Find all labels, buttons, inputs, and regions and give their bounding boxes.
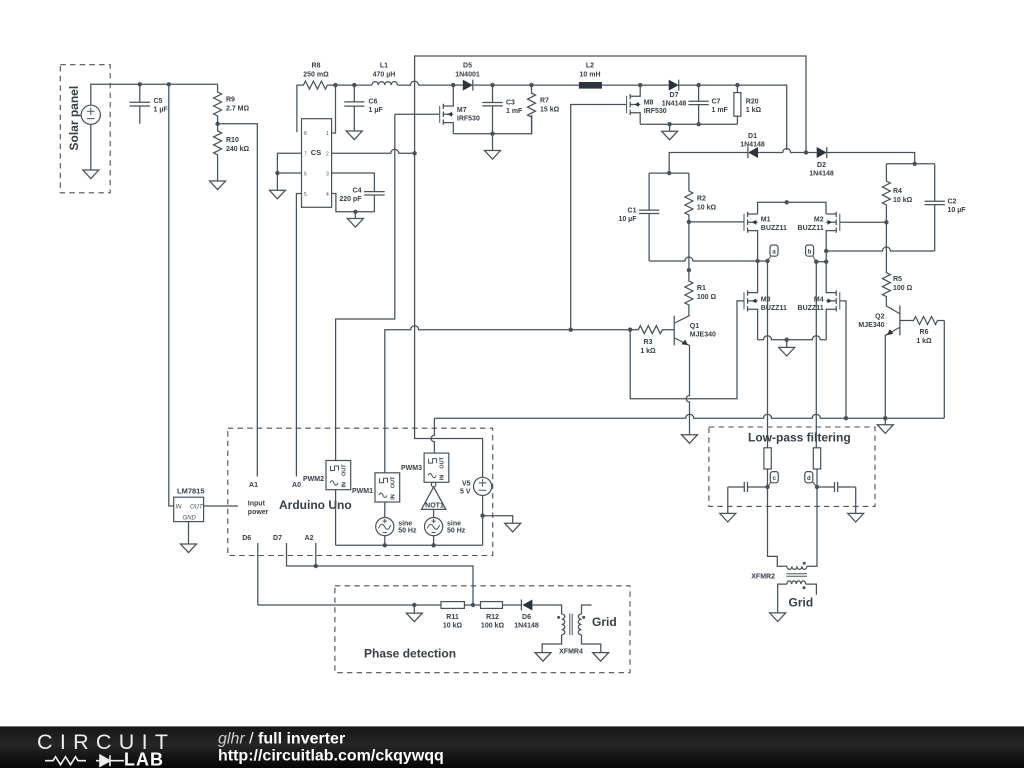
- svg-text:8: 8: [304, 131, 307, 137]
- svg-text:b: b: [808, 250, 812, 256]
- node dot d junction: [815, 485, 819, 489]
- svg-text:BUZZ11: BUZZ11: [798, 305, 824, 312]
- node dot M2 source C2 tap: [824, 249, 828, 253]
- svg-text:100 Ω: 100 Ω: [697, 294, 717, 301]
- Low-pass filtering dashed enclosure: [709, 427, 875, 506]
- svg-text:10 kΩ: 10 kΩ: [443, 623, 463, 630]
- wire D1 anode to D2 anode with hop: [758, 149, 817, 153]
- wire c to XFMR2 primary: [768, 487, 787, 566]
- svg-text:10 kΩ: 10 kΩ: [697, 205, 717, 212]
- rail R4/C2 top: [886, 163, 934, 165]
- filter capacitor left: [728, 482, 768, 492]
- svg-text:BUZZ11: BUZZ11: [761, 225, 787, 232]
- capacitor C5: [130, 84, 169, 124]
- node dot R4/R5/M2gate: [884, 220, 888, 224]
- PWM2 block: [303, 461, 351, 490]
- node dot bridge top: [785, 200, 789, 204]
- wire R2 to R1 with hop over C1 rail: [688, 222, 690, 270]
- svg-text:R4: R4: [893, 188, 902, 195]
- svg-text:C2: C2: [948, 199, 957, 206]
- svg-text:D6: D6: [522, 614, 531, 621]
- node dot R9/R10 junction: [215, 122, 219, 126]
- sine source (PWM1 input): [376, 518, 417, 536]
- svg-text:R20: R20: [746, 99, 759, 106]
- inverter NOT1: [422, 482, 446, 509]
- svg-text:1N4148: 1N4148: [740, 142, 765, 149]
- sine sources common rail: [336, 544, 483, 546]
- svg-text:2: 2: [326, 152, 329, 158]
- node dot pin2/bus junction: [412, 151, 416, 155]
- pin A1: [249, 482, 258, 489]
- svg-text:100 kΩ: 100 kΩ: [481, 623, 505, 630]
- wire D6 diode to XFMR4: [532, 605, 561, 614]
- svg-text:1 mF: 1 mF: [712, 107, 729, 114]
- svg-text:1: 1: [326, 131, 329, 137]
- node dot bridge gnd: [785, 338, 789, 342]
- wire M8 gate: [571, 105, 627, 330]
- diode D6 (1N4148): [514, 600, 539, 630]
- wire M8 source rail: [640, 123, 737, 125]
- svg-text:IRF530: IRF530: [644, 108, 667, 115]
- svg-text:4: 4: [326, 192, 329, 198]
- svg-text:Q2: Q2: [875, 314, 884, 321]
- inductor L2 (solid): [579, 63, 602, 89]
- IC CS (current sense chip): [302, 119, 332, 208]
- capacitor C1: [618, 173, 659, 261]
- wire R9/R10 junction to A1 vertical: [218, 124, 258, 477]
- wire pin2 to V5 bus with hop: [332, 149, 415, 153]
- svg-text:IN: IN: [176, 505, 183, 511]
- H-bridge top rail: [758, 202, 826, 214]
- resistor R12 (box): [481, 602, 505, 630]
- svg-text:10 µF: 10 µF: [618, 216, 637, 223]
- resistor R10: [214, 124, 250, 181]
- mosfet M7 IRF530: [440, 85, 480, 134]
- Arduino Uno dashed enclosure: [228, 428, 493, 555]
- svg-text:IN: IN: [342, 482, 348, 488]
- wire LM7815 OUT to Input power pin: [204, 505, 238, 507]
- wire pin1 riser: [332, 85, 336, 133]
- filter capacitor right: [817, 482, 856, 492]
- wire PWM2 bottom: [335, 490, 337, 546]
- node dot R2 bottom / M1 gate: [687, 220, 691, 224]
- svg-text:Solar panel: Solar panel: [67, 86, 81, 151]
- resistor R9: [214, 84, 250, 124]
- svg-text:sine: sine: [447, 521, 461, 528]
- svg-text:A2: A2: [305, 535, 314, 542]
- svg-text:BUZZ11: BUZZ11: [761, 305, 787, 312]
- sine source (NOT1 input): [425, 518, 466, 536]
- Phase detection dashed enclosure: [335, 586, 630, 673]
- node dot R7 top: [529, 83, 533, 87]
- svg-text:1N4148: 1N4148: [809, 171, 834, 178]
- svg-text:GND: GND: [183, 516, 197, 522]
- svg-text:Phase detection: Phase detection: [364, 647, 456, 661]
- svg-text:M4: M4: [814, 297, 824, 304]
- svg-text:d: d: [807, 476, 811, 482]
- node dot V5 gnd tap: [480, 514, 484, 518]
- wire a to low-pass: [767, 261, 769, 448]
- wire M2 gate to R4/R5: [840, 221, 887, 223]
- svg-text:C3: C3: [506, 100, 515, 107]
- svg-text:10 kΩ: 10 kΩ: [893, 197, 913, 204]
- node dot C6 top: [352, 83, 356, 87]
- svg-text:power: power: [248, 509, 269, 516]
- wire to ground: [786, 340, 788, 348]
- svg-text:PWM3: PWM3: [401, 465, 422, 472]
- wire PWM3 out riser with hop: [431, 418, 434, 453]
- ground (XFMR4 right): [593, 653, 609, 662]
- voltage source V5: [460, 477, 492, 495]
- wire XFMR2 secondary left to ground: [778, 584, 787, 613]
- wire M7 gate: [395, 113, 440, 115]
- resistor R2: [685, 173, 717, 222]
- ground (LM7815): [181, 544, 197, 553]
- svg-text:R12: R12: [486, 614, 499, 621]
- capacitor C6: [344, 85, 383, 131]
- svg-text:C6: C6: [369, 99, 378, 106]
- svg-text:XFMR4: XFMR4: [559, 649, 583, 656]
- wire R11 to R12: [464, 604, 480, 606]
- wire PWM1 riser to R3 with hop: [385, 326, 630, 473]
- svg-text:C1: C1: [628, 208, 637, 215]
- solar panel dashed enclosure: [60, 65, 110, 193]
- svg-text:XFMR2: XFMR2: [751, 574, 775, 581]
- ground (C6): [346, 131, 362, 140]
- svg-text:BUZZ11: BUZZ11: [798, 225, 824, 232]
- wire M1 gate: [689, 221, 744, 223]
- svg-text:1 kΩ: 1 kΩ: [640, 348, 656, 355]
- wire D7/A2 to phase detection: [316, 566, 473, 605]
- long ground bus y418 with hops: [434, 414, 944, 418]
- svg-text:MJE340: MJE340: [858, 322, 884, 329]
- ground (R10): [210, 181, 226, 190]
- wire D7 to corner riser: [679, 85, 787, 150]
- wire solar bottom to ground: [90, 124, 92, 170]
- ground (V5): [505, 523, 521, 532]
- svg-text:50 Hz: 50 Hz: [398, 528, 417, 535]
- wire to ground: [413, 605, 415, 613]
- diode D7: [662, 80, 687, 108]
- node dot b-branch: [824, 260, 828, 264]
- resistor R7: [528, 85, 560, 134]
- svg-text:IN: IN: [391, 494, 397, 500]
- inductor L1: [372, 63, 398, 86]
- svg-text:3: 3: [326, 172, 329, 178]
- wire M7 source rail / C3 / R7 bottom: [453, 115, 531, 134]
- svg-text:C5: C5: [154, 98, 163, 105]
- ground (M8 rail): [662, 131, 678, 140]
- node dot R8 right: [333, 83, 337, 87]
- node dot Q2 emitter on bus: [883, 416, 887, 420]
- svg-text:15 kΩ: 15 kΩ: [540, 107, 560, 114]
- svg-text:2.7 MΩ: 2.7 MΩ: [226, 106, 250, 113]
- svg-text:1N4148: 1N4148: [662, 101, 687, 108]
- pin D6: [242, 535, 258, 605]
- svg-text:R5: R5: [893, 276, 902, 283]
- wire D6 pin run into phase box: [258, 604, 441, 606]
- svg-text:Input: Input: [248, 501, 266, 508]
- ground (phase): [406, 613, 422, 622]
- footer bar: [0, 726, 1024, 768]
- node dot c junction: [765, 485, 769, 489]
- wire b rail to C2 bottom with hop: [826, 247, 935, 251]
- ground (Q1): [682, 435, 698, 444]
- mosfet M8 IRF530: [627, 85, 667, 124]
- svg-text:R6: R6: [920, 329, 929, 336]
- diode D5: [455, 63, 480, 91]
- diode D2: [809, 147, 834, 178]
- wire pin6 to ground rail: [277, 172, 301, 174]
- svg-text:100 Ω: 100 Ω: [893, 285, 913, 292]
- capacitor C2: [925, 164, 967, 251]
- filter inductor left (box): [764, 448, 771, 487]
- wire d to XFMR2 primary right: [807, 487, 817, 566]
- wire filter left cap to ground: [727, 487, 729, 513]
- voltage source V (solar): [81, 105, 100, 124]
- wire V5 bottom: [482, 496, 484, 546]
- svg-text:L1: L1: [380, 63, 388, 70]
- svg-text:10 mH: 10 mH: [579, 72, 600, 79]
- svg-text:M1: M1: [761, 217, 771, 224]
- capacitor C4: [339, 188, 384, 212]
- svg-text:5: 5: [304, 192, 307, 198]
- svg-text:C4: C4: [353, 188, 362, 195]
- svg-text:6: 6: [304, 172, 307, 178]
- PWM3 block: [401, 453, 449, 482]
- svg-text:Grid: Grid: [789, 596, 814, 610]
- mosfet M3 BUZZ11: [744, 261, 787, 340]
- svg-text:OUT: OUT: [342, 464, 348, 476]
- svg-text:10 µF: 10 µF: [948, 207, 967, 214]
- svg-text:R8: R8: [312, 63, 321, 70]
- node dot M1 source: [755, 259, 759, 263]
- svg-text:C7: C7: [712, 99, 721, 106]
- node dot C3 bottom: [490, 132, 494, 136]
- svg-text:M3: M3: [761, 297, 771, 304]
- svg-text:D2: D2: [817, 162, 826, 169]
- resistor R11 (box): [441, 602, 464, 630]
- pin A2: [305, 535, 316, 566]
- wire sine1 bottom: [384, 536, 386, 546]
- wire to ground: [276, 173, 278, 190]
- svg-text:M8: M8: [644, 100, 654, 107]
- node dot C4 gnd: [353, 210, 357, 214]
- wire PWM2 top riser to M7 gate: [336, 114, 395, 460]
- svg-text:L2: L2: [586, 63, 594, 70]
- wire sine2 bottom: [433, 536, 435, 546]
- node flag c: [768, 472, 778, 487]
- node dot M8-gate junction: [569, 328, 573, 332]
- capacitor C3: [482, 85, 523, 134]
- svg-text:PWM1: PWM1: [352, 488, 373, 495]
- node dot D7/A2: [314, 564, 318, 568]
- svg-text:1 kΩ: 1 kΩ: [916, 338, 932, 345]
- svg-text:OUT: OUT: [440, 456, 446, 468]
- transformer XFMR4: [557, 614, 585, 656]
- wire pin4 to C4 bottom: [332, 194, 375, 212]
- resistor R20 (box): [734, 85, 762, 124]
- svg-text:PWM2: PWM2: [303, 476, 324, 483]
- svg-text:250 mΩ: 250 mΩ: [303, 72, 329, 79]
- wire NOT1 to sine2: [433, 509, 435, 517]
- wire XFMR4 secondary top stub: [582, 605, 592, 614]
- wire R8 right to L1 with C6 tap: [336, 84, 372, 86]
- wire solar top: [91, 84, 218, 105]
- node dot C7 bottom: [696, 122, 700, 126]
- svg-text:R11: R11: [446, 614, 459, 621]
- svg-text:Arduino Uno: Arduino Uno: [279, 498, 352, 512]
- wire filter right cap to ground: [855, 487, 857, 513]
- wire pin3 to C4 top: [332, 173, 375, 192]
- node dot R20 top: [735, 83, 739, 87]
- wire to ground: [669, 124, 671, 131]
- bridge bottom rail with hops: [758, 336, 827, 340]
- svg-text:1 mF: 1 mF: [506, 108, 523, 115]
- wire L1 to D5 with hop: [398, 81, 453, 85]
- wire to ground: [354, 212, 356, 219]
- svg-text:IRF530: IRF530: [457, 116, 480, 123]
- wire M3 gate drive: [630, 301, 744, 399]
- svg-text:1N4148: 1N4148: [514, 623, 539, 630]
- ground (filter right): [848, 513, 864, 522]
- svg-text:sine: sine: [398, 521, 412, 528]
- wire LM7815 GND: [188, 522, 190, 544]
- ground (bridge): [779, 347, 795, 356]
- node dot gnd tap (phase): [412, 603, 416, 607]
- wire to ground: [492, 134, 494, 151]
- svg-text:7: 7: [304, 152, 307, 158]
- svg-text:LM7815: LM7815: [177, 487, 205, 496]
- PWM1 block: [352, 473, 400, 502]
- svg-text:1N4001: 1N4001: [455, 72, 480, 79]
- svg-text:V5: V5: [462, 481, 471, 488]
- svg-text:50 Hz: 50 Hz: [447, 528, 466, 535]
- svg-text:D1: D1: [748, 133, 757, 140]
- top bus from V5 vertical to D2: [415, 56, 806, 153]
- node dot pin6/7 gnd: [275, 171, 279, 175]
- svg-text:470 µH: 470 µH: [373, 72, 396, 79]
- ground (CS pins 6-7): [269, 190, 285, 199]
- wire R12 to D6 diode: [503, 604, 522, 606]
- svg-text:1 µF: 1 µF: [154, 107, 169, 114]
- svg-text:220 pF: 220 pF: [339, 196, 362, 203]
- svg-text:http://circuitlab.com/ckqywqq: http://circuitlab.com/ckqywqq: [218, 748, 444, 765]
- svg-text:R3: R3: [644, 339, 653, 346]
- svg-text:R1: R1: [697, 285, 706, 292]
- wire M4 gate to bus: [840, 301, 846, 418]
- ground (C4): [347, 219, 363, 228]
- svg-text:A0: A0: [292, 482, 301, 489]
- svg-text:D6: D6: [242, 535, 251, 542]
- node dot R3/M3-gate junction: [628, 328, 632, 332]
- regulator LM7815: [174, 487, 205, 522]
- svg-text:5 V: 5 V: [460, 489, 471, 496]
- node dot M8 drain: [638, 83, 642, 87]
- wire XFMR4 secondary bottom to ground: [582, 635, 601, 653]
- svg-text:R10: R10: [226, 137, 239, 144]
- node dot C5 top: [138, 82, 142, 86]
- svg-text:glhr / full inverter: glhr / full inverter: [218, 731, 345, 748]
- node dot C1/R2 rail: [667, 171, 671, 175]
- pin Input power: [248, 501, 269, 517]
- node dot C7 top: [696, 83, 700, 87]
- wire b-branch: [816, 261, 826, 263]
- wire D1 cathode left leg: [669, 153, 748, 174]
- wire D5 to C3/R7 run: [473, 84, 579, 86]
- node flag a: [768, 245, 779, 261]
- mosfet M1 BUZZ11: [744, 212, 787, 261]
- ground (filter left): [720, 513, 736, 522]
- transformer XFMR2: [751, 562, 807, 590]
- resistor R8: [297, 63, 336, 133]
- ground (XFMR4 left): [535, 653, 551, 662]
- wire R6 right to bus corner: [943, 321, 945, 419]
- wire L2 to M8/D7: [602, 84, 669, 86]
- wire bus to ground: [884, 418, 886, 425]
- node dot a-branch: [765, 259, 769, 263]
- svg-text:240 kΩ: 240 kΩ: [226, 146, 250, 153]
- node dot M4 gate on bus: [844, 416, 848, 420]
- svg-text:R7: R7: [540, 98, 549, 105]
- wire PWM1 bottom: [384, 502, 386, 518]
- svg-text:1 kΩ: 1 kΩ: [746, 107, 762, 114]
- mosfet M2 BUZZ11: [798, 212, 840, 262]
- wire XFMR2 secondary right stub: [806, 584, 817, 595]
- transistor Q2 MJE340: [858, 303, 899, 419]
- node dot gnd tap: [667, 122, 671, 126]
- svg-text:D7: D7: [273, 535, 282, 542]
- resistor R1: [685, 270, 717, 315]
- node dot R11/R12/A2 feed: [471, 603, 475, 607]
- resistor R3: [630, 326, 674, 355]
- mosfet M4 BUZZ11: [798, 262, 840, 340]
- svg-text:CS: CS: [311, 148, 321, 157]
- ground (C3 rail): [485, 151, 501, 160]
- svg-text:M2: M2: [814, 217, 824, 224]
- transistor Q1 MJE340: [674, 316, 716, 435]
- wire V5 gnd branch: [483, 516, 513, 524]
- wire V5 chain riser: [415, 153, 483, 477]
- node dot top-bus junction: [804, 150, 808, 154]
- resistor R4: [882, 164, 912, 223]
- diode D1: [740, 133, 765, 158]
- ground (XFMR2): [770, 613, 786, 622]
- wire b to low-pass: [815, 262, 817, 448]
- wire D2 to R4/C2 rail: [827, 153, 915, 164]
- wire D1 junction into C1/R2 rail: [649, 172, 689, 174]
- pin A0: [292, 482, 301, 489]
- wire pin5 to A0: [296, 194, 301, 477]
- svg-text:A1: A1: [249, 482, 258, 489]
- wire C1 bottom rail to node a with hop: [649, 257, 767, 261]
- svg-text:Q1: Q1: [690, 323, 699, 330]
- svg-text:Low-pass filtering: Low-pass filtering: [748, 431, 851, 445]
- node dot M7 drain: [451, 83, 455, 87]
- svg-text:OUT: OUT: [190, 505, 204, 511]
- node dot LM7815 feed: [167, 82, 171, 86]
- wire node to LM7815 IN: [169, 84, 174, 506]
- svg-text:OUT: OUT: [391, 476, 397, 488]
- node dot rail: [913, 162, 917, 166]
- svg-text:NOT1: NOT1: [425, 503, 444, 510]
- node dot R1 top: [687, 268, 691, 272]
- resistor R6: [900, 317, 944, 346]
- pin D7: [273, 535, 316, 566]
- svg-text:IN: IN: [440, 475, 446, 481]
- wire pin7 to ground rail: [277, 153, 301, 173]
- node flag d: [805, 472, 816, 487]
